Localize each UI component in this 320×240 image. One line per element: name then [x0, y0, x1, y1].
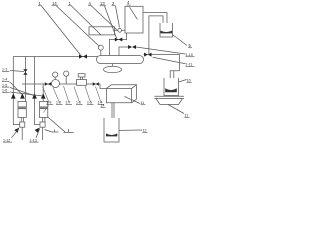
regulator R1 — [77, 80, 87, 86]
leader row to cylinder2 — [44, 106, 49, 113]
wire box to top beaker — [143, 13, 167, 29]
svg-text:11: 11 — [141, 101, 145, 105]
svg-text:4: 4 — [89, 1, 92, 6]
furnace oblique box — [106, 85, 136, 103]
dish stand — [155, 96, 185, 104]
riser capsule to 1-10 line — [119, 47, 130, 56]
svg-text:10: 10 — [187, 79, 191, 83]
pipe to cylinder2 top — [42, 84, 44, 102]
leader 12 — [119, 129, 142, 131]
leader 10 — [179, 80, 187, 83]
pipe drop to cylinder1 bottom — [13, 57, 19, 125]
leader top 13 — [105, 6, 117, 38]
symbol S1 — [48, 117, 74, 132]
svg-text:1-4: 1-4 — [98, 101, 103, 105]
cylinder1 fitting — [20, 122, 25, 127]
leader 5 — [173, 35, 188, 46]
leader 11 — [125, 97, 141, 104]
link junction to box — [122, 29, 125, 31]
leader top 14 — [57, 6, 100, 47]
valve V4 — [115, 38, 123, 42]
cylinder2 neck — [42, 118, 44, 123]
leader 1-13 — [36, 129, 40, 138]
capsule vessel — [97, 56, 144, 64]
leader 1-12 — [12, 129, 20, 138]
box label leader — [130, 7, 138, 19]
cylinder1 drain — [21, 127, 23, 140]
wire capsule right out — [144, 55, 180, 71]
leader 13 — [168, 105, 184, 114]
svg-text:1-5: 1-5 — [2, 83, 7, 87]
valve V6 — [144, 53, 151, 57]
downpipe jog — [170, 71, 179, 89]
gauge G1 — [54, 77, 56, 79]
valve V5 — [128, 45, 136, 49]
arrow valve B2 — [35, 128, 40, 133]
leader 1-1 — [10, 71, 24, 72]
leader row to gauge G2 — [64, 86, 70, 103]
check valve A1 — [11, 93, 16, 98]
wire top manifold — [13, 56, 97, 58]
leader 1-5 — [10, 88, 34, 96]
junction circle — [118, 28, 122, 32]
pump P1 — [52, 80, 60, 88]
cylinder 1 — [18, 102, 26, 118]
check valve A4 — [41, 93, 46, 98]
svg-text:4: 4 — [127, 0, 130, 5]
riser to top beaker — [149, 16, 163, 55]
svg-text:1-9: 1-9 — [47, 101, 52, 105]
cylinder 2 — [40, 102, 48, 118]
valve on top manifold — [79, 54, 87, 58]
cylinder2 drain — [41, 127, 43, 140]
leader top 1b — [72, 6, 102, 35]
flow component rect — [89, 27, 115, 35]
top beaker — [160, 23, 173, 37]
svg-text:12: 12 — [143, 129, 147, 133]
leader row to pump P1 — [53, 88, 60, 103]
link rect to junction — [115, 29, 118, 31]
capsule gauge — [100, 50, 102, 55]
svg-text:1-5: 1-5 — [87, 101, 92, 105]
leader 1-6 — [10, 92, 43, 96]
svg-text:1: 1 — [39, 1, 42, 6]
svg-text:1-10: 1-10 — [186, 53, 193, 57]
riser capsule to box — [109, 33, 126, 56]
check valve A3 — [32, 93, 37, 98]
check valve A2 — [20, 93, 25, 98]
svg-text:1-12: 1-12 — [3, 138, 10, 142]
svg-text:1-1: 1-1 — [2, 68, 7, 72]
gauge G2 — [65, 76, 67, 84]
svg-text:2: 2 — [112, 1, 115, 6]
svg-text:1-4: 1-4 — [2, 78, 7, 82]
wire lower manifold — [22, 84, 106, 88]
pipe drop to cylinder2 bottom — [35, 57, 41, 125]
svg-text:14: 14 — [52, 1, 57, 6]
box unit — [125, 6, 143, 33]
bottom beaker liquid — [106, 133, 117, 136]
top beaker liquid — [160, 31, 172, 34]
svg-text:13: 13 — [100, 1, 105, 6]
leader 1-11 — [153, 57, 186, 64]
wire 1-10 line — [136, 47, 186, 54]
leader top 4 — [92, 6, 118, 30]
svg-text:1-13: 1-13 — [30, 138, 37, 142]
leader 1-4 — [10, 82, 22, 95]
symbol S2 — [45, 130, 59, 133]
cylinder1 neck — [20, 118, 22, 123]
arrow valve B1 — [14, 128, 19, 133]
capsule stem — [112, 64, 114, 67]
mid beaker liquid — [165, 88, 177, 92]
capsule ellipse base — [104, 66, 122, 73]
leader top 2 — [116, 6, 120, 28]
svg-text:1-7: 1-7 — [66, 101, 71, 105]
furnace down tube — [112, 103, 114, 132]
pipe to cylinder1 top — [24, 57, 26, 102]
valve V2 — [45, 82, 51, 86]
svg-text:5: 5 — [189, 43, 192, 48]
cylinder2 fitting — [40, 122, 45, 127]
leader row to valve V3 — [96, 87, 102, 103]
svg-text:1-6: 1-6 — [2, 89, 7, 93]
mid beaker — [164, 78, 179, 96]
valve V1 — [23, 69, 27, 75]
svg-text:1-11: 1-11 — [186, 63, 193, 67]
leader row to valve V2 — [43, 87, 50, 103]
svg-text:1: 1 — [69, 1, 72, 6]
svg-text:11: 11 — [185, 114, 189, 118]
leader top 1 — [42, 6, 81, 55]
svg-text:1-8: 1-8 — [56, 101, 61, 105]
leader row to regulator R1 — [74, 87, 80, 103]
bottom beaker — [104, 118, 119, 142]
leader row to manifold — [85, 86, 91, 103]
svg-text:1-6: 1-6 — [76, 101, 81, 105]
valve V3 — [93, 82, 99, 86]
